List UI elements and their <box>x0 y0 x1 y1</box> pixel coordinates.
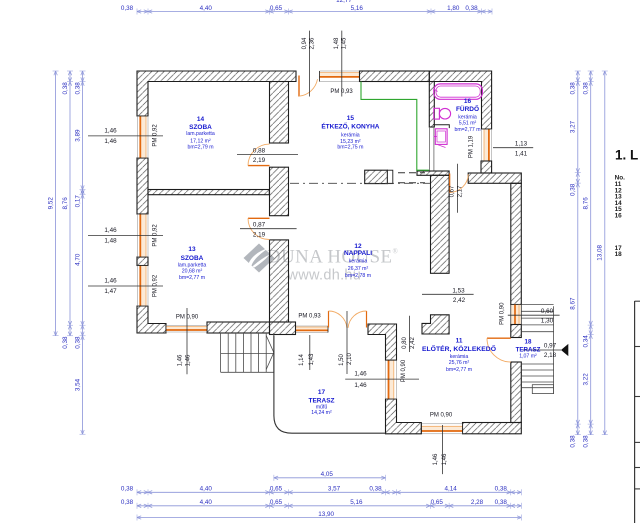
svg-text:®: ® <box>393 248 399 256</box>
svg-text:1,46: 1,46 <box>354 371 367 378</box>
dimension bottom row 2 <box>121 486 521 496</box>
window room13 west upper 1,46 <box>138 214 149 257</box>
kitchen counter green outline <box>361 82 429 171</box>
svg-text:ÉTKEZŐ, KONYHA: ÉTKEZŐ, KONYHA <box>321 121 379 130</box>
svg-text:15: 15 <box>347 115 355 122</box>
door bathroom (open passage lines) <box>429 127 431 171</box>
svg-text:2,10: 2,10 <box>347 353 353 365</box>
wall interior thick upper <box>270 82 289 144</box>
wall entry bottom-left corner <box>386 399 422 434</box>
room label 13 SZOBA <box>178 246 207 281</box>
svg-text:0,38: 0,38 <box>570 183 577 196</box>
svg-text:13,08: 13,08 <box>597 244 604 260</box>
wall left pier between windows <box>137 158 148 214</box>
svg-text:1,46: 1,46 <box>354 382 367 389</box>
svg-text:1,45: 1,45 <box>342 37 348 49</box>
svg-text:1,46: 1,46 <box>104 138 117 145</box>
svg-text:1,14: 1,14 <box>299 354 305 366</box>
wall bathroom west <box>429 82 434 128</box>
svg-text:1,46: 1,46 <box>104 128 117 135</box>
vanity counter line <box>433 125 449 128</box>
svg-text:PM 0,92: PM 0,92 <box>152 124 158 147</box>
dimension left line segments <box>74 71 85 434</box>
svg-text:4,40: 4,40 <box>200 486 213 493</box>
svg-text:TERASZ: TERASZ <box>309 398 335 405</box>
wall interior thick lower <box>270 240 289 322</box>
room label 18 TERASZ <box>516 339 541 360</box>
svg-text:2,18: 2,18 <box>544 352 557 359</box>
svg-text:PM 0,92: PM 0,92 <box>152 224 158 247</box>
svg-text:0,38: 0,38 <box>495 486 508 493</box>
door entrance 0,97 <box>487 338 511 362</box>
room label 16 FURDO <box>454 98 480 133</box>
wall outer top-left + left upper <box>137 71 296 116</box>
svg-text:18: 18 <box>615 251 623 258</box>
svg-text:8,76: 8,76 <box>62 197 69 210</box>
svg-text:0,17: 0,17 <box>74 195 81 208</box>
svg-text:PM 1,19: PM 1,19 <box>469 135 475 158</box>
svg-text:2,42: 2,42 <box>410 337 416 349</box>
dim window entry right 0,60/1,30 <box>508 308 560 324</box>
svg-text:1,53: 1,53 <box>452 287 465 294</box>
svg-text:0,94: 0,94 <box>302 37 308 49</box>
dim opening 0,80/2,42 <box>402 316 416 352</box>
svg-text:14,24 m²: 14,24 m² <box>311 410 332 416</box>
svg-text:0,38: 0,38 <box>62 82 69 95</box>
door kitchen top 0,94 <box>299 76 318 97</box>
wall band below bathroom <box>468 173 521 183</box>
dim window room13 west upper <box>88 227 163 244</box>
svg-text:9,52: 9,52 <box>47 197 54 210</box>
svg-text:bm=2,75 m: bm=2,75 m <box>337 144 363 150</box>
wall right below bathroom window <box>481 161 492 173</box>
dimension bottom row 13,90 <box>137 511 521 521</box>
svg-text:3,22: 3,22 <box>583 373 590 386</box>
room label 11 ELOTER KOZLEKEDO <box>422 338 496 373</box>
svg-text:0,65: 0,65 <box>270 499 283 506</box>
wall interior thick middle <box>270 167 289 216</box>
window entry bottom 1,46 <box>421 424 462 434</box>
wall room13 bottom <box>207 322 270 333</box>
svg-text:1,30: 1,30 <box>541 317 554 324</box>
room label 15 ETKEZO KONYHA <box>321 115 379 150</box>
svg-text:1,46: 1,46 <box>442 453 448 465</box>
dim window room14 west <box>88 128 163 145</box>
svg-text:4,40: 4,40 <box>200 5 213 12</box>
svg-text:0,65: 0,65 <box>270 5 283 12</box>
watermark Duna House logo <box>244 244 275 273</box>
svg-text:3,27: 3,27 <box>570 120 577 133</box>
dim window nappali south 1,14/1,43 <box>299 335 315 370</box>
svg-text:1,46: 1,46 <box>104 278 117 285</box>
svg-text:1,46: 1,46 <box>186 354 192 366</box>
svg-text:PM 0,90: PM 0,90 <box>401 359 407 382</box>
dim window room13 west lower <box>88 278 163 295</box>
svg-text:1,46: 1,46 <box>104 227 117 234</box>
svg-text:2,28: 2,28 <box>471 499 484 506</box>
svg-text:2,17: 2,17 <box>458 185 464 197</box>
window kitchen top 1,48 <box>320 71 360 82</box>
svg-text:kerámia: kerámia <box>458 114 477 120</box>
window entry right wall 0,60 <box>511 305 522 325</box>
dimension left line 9,52 <box>47 71 58 336</box>
svg-text:0,65: 0,65 <box>431 499 444 506</box>
svg-text:bm=2,79 m: bm=2,79 m <box>187 144 213 150</box>
svg-text:12,77: 12,77 <box>336 0 352 4</box>
dim window bathroom 1,13/1,41 <box>493 140 533 157</box>
svg-text:0,38: 0,38 <box>74 82 81 95</box>
wall entry bottom right corner <box>463 423 522 434</box>
dimension bottom row 1 (4,05) <box>274 471 386 481</box>
room label 17 TERASZ <box>309 389 335 416</box>
wall thin kitchen/hall <box>417 171 449 175</box>
wall nappali south-east corner <box>368 324 397 360</box>
svg-text:8,67: 8,67 <box>570 297 577 310</box>
stairs entry east <box>521 305 553 394</box>
svg-text:2,36: 2,36 <box>309 37 315 49</box>
svg-text:5,16: 5,16 <box>350 499 363 506</box>
wall right of entry upper <box>511 183 522 304</box>
svg-text:0,80: 0,80 <box>402 337 408 349</box>
dash-dot section line <box>290 182 430 184</box>
svg-text:26,37 m²: 26,37 m² <box>348 266 369 272</box>
dimension top horizontal <box>121 5 492 15</box>
dim opening 0,67/2,17 <box>450 164 464 213</box>
dim window entry south 1,46/1,46 <box>433 425 448 474</box>
kitchen counter outline extension <box>387 170 392 183</box>
door room13 0,87 <box>248 218 270 239</box>
svg-text:0,87: 0,87 <box>253 221 266 228</box>
svg-text:PM 0,93: PM 0,93 <box>330 89 353 95</box>
svg-text:1,13: 1,13 <box>515 140 528 147</box>
svg-text:3,89: 3,89 <box>74 129 81 142</box>
dim window entry west 1,46/1,46 <box>345 371 419 389</box>
wall top between kitchen window and bathroom <box>360 71 430 82</box>
svg-text:0,67: 0,67 <box>450 185 456 197</box>
svg-text:2,42: 2,42 <box>453 297 466 304</box>
stairs garden south-west <box>221 333 274 372</box>
wall kitchen counter pillar <box>365 170 388 183</box>
svg-text:kerámia: kerámia <box>341 133 360 139</box>
terrace 17 outline <box>274 336 386 434</box>
wall hall/bathroom block <box>431 175 450 273</box>
washbasin <box>434 129 447 148</box>
svg-text:3,57: 3,57 <box>328 486 341 493</box>
window room13 south 1,46 <box>166 326 207 333</box>
svg-text:SZOBA: SZOBA <box>181 255 204 262</box>
svg-text:1,80: 1,80 <box>447 5 460 12</box>
window room14 west 1,46 <box>138 116 149 158</box>
svg-text:1,48: 1,48 <box>104 238 117 245</box>
svg-text:4,70: 4,70 <box>74 253 81 266</box>
wall joint below thick wall <box>270 322 296 335</box>
svg-text:bm=2,77 m: bm=2,77 m <box>454 127 480 133</box>
svg-text:5,51 m²: 5,51 m² <box>459 121 477 127</box>
svg-text:NAPPALI: NAPPALI <box>344 250 372 257</box>
svg-text:kerámia: kerámia <box>450 354 469 360</box>
svg-text:1,41: 1,41 <box>515 150 528 157</box>
svg-text:1,46: 1,46 <box>433 453 439 465</box>
dim door room14 0,88/2,19 <box>237 147 298 164</box>
svg-text:1,07 m²: 1,07 m² <box>519 353 537 359</box>
svg-text:0,38: 0,38 <box>583 435 590 448</box>
legend No. list <box>615 174 626 258</box>
svg-text:0,38: 0,38 <box>495 499 508 506</box>
svg-text:8,76: 8,76 <box>583 197 590 210</box>
svg-text:lam.parketta: lam.parketta <box>186 131 215 137</box>
svg-text:PM 0,92: PM 0,92 <box>152 274 158 297</box>
svg-text:5,16: 5,16 <box>351 5 364 12</box>
svg-text:0,38: 0,38 <box>121 5 134 12</box>
svg-text:PM 0,90: PM 0,90 <box>499 302 505 325</box>
dim opening 1,53/2,42 <box>422 287 474 304</box>
svg-text:0,38: 0,38 <box>74 336 81 349</box>
svg-text:0,38: 0,38 <box>121 499 134 506</box>
svg-text:0,65: 0,65 <box>270 486 283 493</box>
svg-text:0,97: 0,97 <box>544 343 557 350</box>
svg-text:0,38: 0,38 <box>570 435 577 448</box>
svg-text:2,19: 2,19 <box>253 231 266 238</box>
svg-text:4,05: 4,05 <box>321 471 334 478</box>
svg-text:16: 16 <box>464 98 472 105</box>
wall between room14 and room13 <box>148 190 269 195</box>
room label 14 SZOBA <box>186 116 215 150</box>
svg-text:bm=2,77 m: bm=2,77 m <box>446 367 472 373</box>
dim door room13 0,87/2,19 <box>240 221 297 238</box>
svg-text:4,40: 4,40 <box>200 499 213 506</box>
wall chimney L-block <box>422 315 449 334</box>
svg-text:13: 13 <box>188 246 196 253</box>
svg-text:1,43: 1,43 <box>309 353 315 365</box>
svg-text:bm=2,78 m: bm=2,78 m <box>345 273 371 279</box>
svg-text:1,48: 1,48 <box>334 37 340 49</box>
dim kitchen window top 1,48/1,45 <box>334 31 348 97</box>
svg-text:0,38: 0,38 <box>121 486 134 493</box>
svg-text:4,14: 4,14 <box>445 486 458 493</box>
svg-text:2,19: 2,19 <box>253 157 266 164</box>
svg-text:SZOBA: SZOBA <box>189 124 212 131</box>
svg-text:14: 14 <box>197 116 205 123</box>
svg-text:20,68 m²: 20,68 m² <box>182 269 203 275</box>
window entry west 1,46 <box>386 360 397 399</box>
bathtub <box>434 84 483 99</box>
svg-text:17: 17 <box>318 389 326 396</box>
svg-text:kerámia: kerámia <box>349 259 368 265</box>
svg-text:0,88: 0,88 <box>253 147 266 154</box>
svg-text:11: 11 <box>456 338 463 345</box>
svg-text:FÜRDŐ: FÜRDŐ <box>456 104 479 113</box>
svg-text:13,90: 13,90 <box>318 511 334 518</box>
svg-text:ELŐTÉR, KÖZLEKEDŐ: ELŐTÉR, KÖZLEKEDŐ <box>422 344 496 353</box>
door french terrace 1,50 <box>329 311 367 328</box>
svg-text:1,50: 1,50 <box>339 354 345 366</box>
dim entrance 0,97/2,18 with arrow <box>523 343 568 359</box>
window nappali south 1,14 <box>296 326 329 333</box>
dimension left line 8,76 <box>62 71 73 349</box>
dimension bottom row 3 <box>121 499 521 509</box>
svg-text:bm=2,77 m: bm=2,77 m <box>179 275 205 281</box>
door hall/entry 0,67 <box>450 174 469 193</box>
svg-text:16: 16 <box>615 212 623 219</box>
dim door terrace 1,50/2,10 <box>339 311 353 374</box>
svg-text:0,38: 0,38 <box>465 5 478 12</box>
toilet <box>434 108 451 119</box>
table frame right edge <box>635 301 640 523</box>
svg-text:0,38: 0,38 <box>583 82 590 95</box>
svg-text:1,47: 1,47 <box>104 288 117 295</box>
svg-text:3,54: 3,54 <box>74 378 81 391</box>
svg-text:1,46: 1,46 <box>178 354 184 366</box>
wall room13 bottom-left corner <box>137 306 166 333</box>
door room14 0,88 <box>248 144 270 166</box>
svg-text:TERASZ: TERASZ <box>516 346 541 353</box>
dimension right line B <box>583 71 594 448</box>
wall left block between windows <box>137 257 148 266</box>
dimension right line A <box>570 71 581 448</box>
wall top-right corner + right upper <box>429 71 491 129</box>
svg-text:1. L: 1. L <box>615 148 638 163</box>
svg-text:PM 0,90: PM 0,90 <box>430 413 453 419</box>
svg-text:0,34: 0,34 <box>583 335 590 348</box>
dim window room13 south 1,46/1,46 <box>178 308 192 374</box>
window room13 west lower 1,46 <box>138 266 149 307</box>
wall right of entry above door <box>511 325 522 338</box>
svg-text:12: 12 <box>354 243 362 250</box>
dashed opening line kitchen <box>398 172 425 174</box>
wall right of entry below door <box>511 362 522 423</box>
svg-text:25,76 m²: 25,76 m² <box>449 360 470 366</box>
room label 12 NAPPALI <box>344 243 372 279</box>
svg-text:18: 18 <box>525 339 532 346</box>
svg-text:0,38: 0,38 <box>570 82 577 95</box>
svg-text:0,38: 0,38 <box>62 336 69 349</box>
dim kitchen door top 0,94/2,36 <box>302 31 316 97</box>
svg-text:PM 0,90: PM 0,90 <box>176 314 199 320</box>
svg-text:PM 0,93: PM 0,93 <box>298 314 321 320</box>
window bathroom right 1,13 <box>482 129 492 161</box>
svg-text:0,38: 0,38 <box>369 486 382 493</box>
dimension right line 13,08 <box>597 71 608 435</box>
svg-text:0,60: 0,60 <box>541 308 554 315</box>
